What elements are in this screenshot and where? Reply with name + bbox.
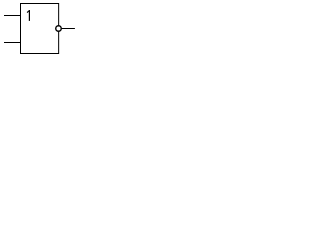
label 1 (digit stem): [28, 10, 30, 21]
logic gate schematic: IEC inverter/OR gate U1: [0, 0, 81, 62]
wire input A: [4, 15, 21, 17]
label 1 (digit flag): [27, 11, 29, 13]
gate body U1 (IEC box): [21, 4, 59, 54]
wire input B: [4, 42, 21, 44]
inverter bubble: [56, 26, 62, 32]
wire output Y: [62, 28, 75, 30]
